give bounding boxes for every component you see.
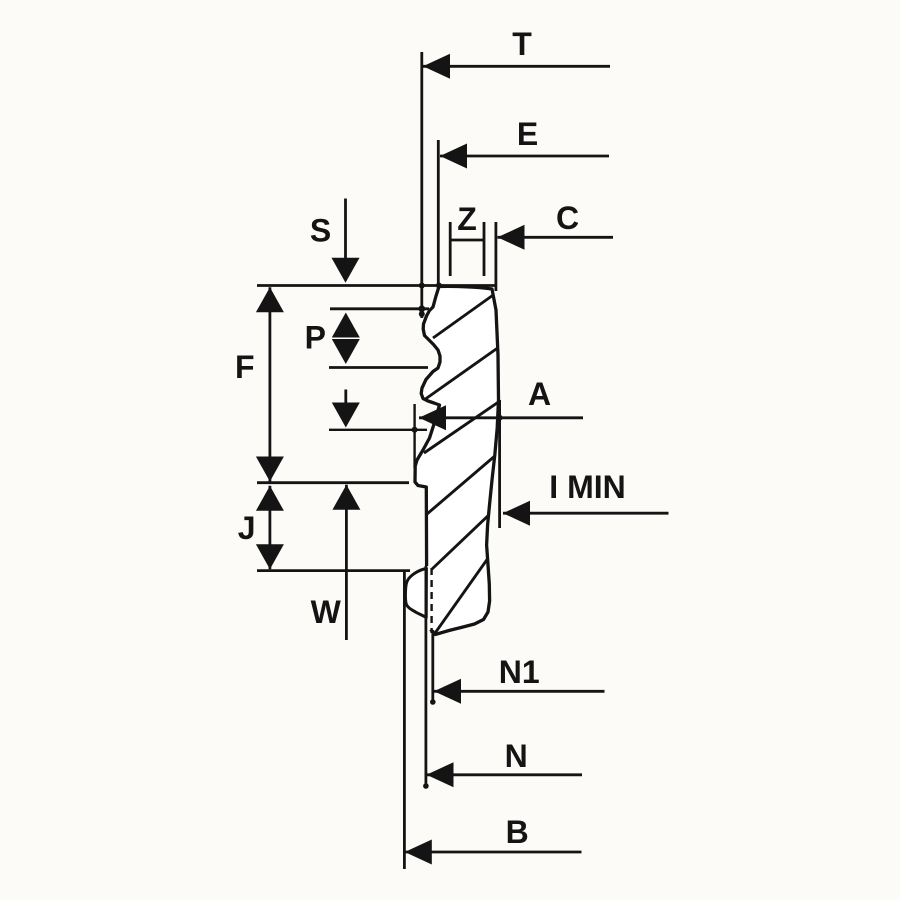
dimension A down arrow — [332, 403, 360, 428]
section visible outline — [415, 286, 499, 634]
dimension N1 arrow — [434, 679, 461, 704]
lower flange lobe — [405, 569, 426, 618]
svg-text:F: F — [235, 349, 255, 385]
dimension I MIN arrow — [503, 501, 530, 526]
dimension T line — [423, 65, 610, 68]
P bottom line — [329, 366, 428, 369]
dimension E line — [440, 155, 609, 158]
A extension tick — [413, 404, 415, 468]
dimension A down arrow stem — [344, 390, 347, 405]
wire: tube wall line (T reference) — [420, 52, 423, 318]
dimension J bottom arrow — [256, 544, 284, 569]
dimension A arrow — [419, 405, 446, 430]
dimension N line — [427, 773, 583, 776]
junction dot T/datum — [419, 283, 425, 289]
W stem — [345, 485, 348, 640]
dimension B arrow — [405, 840, 432, 865]
I MIN extension line — [498, 400, 501, 528]
Z left tick — [449, 222, 452, 276]
A lower reference line — [329, 429, 427, 431]
dimension P arrows — [332, 313, 360, 338]
dimension E arrow — [440, 144, 467, 169]
Z right tick — [483, 222, 486, 276]
dimension T arrow — [423, 54, 450, 79]
dimension I MIN line — [503, 512, 669, 515]
hatch h1 — [433, 293, 496, 338]
dimension S stem — [344, 199, 347, 261]
svg-text:T: T — [512, 26, 532, 62]
section body fill — [415, 286, 499, 634]
N1 vertical line — [431, 630, 434, 702]
junction dot A/IMIN ext — [497, 415, 503, 421]
P top line — [330, 307, 429, 310]
svg-text:N: N — [505, 738, 528, 774]
junction dot A cross — [412, 427, 418, 433]
dimension J top arrow — [256, 486, 284, 511]
hatch h5 — [431, 511, 493, 570]
C reference tick — [494, 222, 497, 291]
svg-text:N1: N1 — [499, 654, 540, 690]
svg-text:Z: Z — [457, 201, 477, 237]
N vertical line — [424, 566, 427, 786]
svg-text:W: W — [311, 594, 342, 630]
svg-text:A: A — [528, 376, 551, 412]
dimension W arrow — [332, 485, 360, 510]
hatch h6 — [433, 554, 491, 636]
svg-text:B: B — [506, 814, 529, 850]
dimension F line — [268, 287, 271, 481]
svg-text:E: E — [517, 116, 538, 152]
junction dot N1 line end — [430, 699, 436, 705]
dimension N1 line — [434, 690, 605, 693]
dimension S arrow — [332, 258, 360, 283]
hatch h2 — [424, 347, 499, 400]
junction dot T/P-line — [418, 305, 425, 312]
dimension N arrow — [427, 762, 454, 787]
dimension C line — [498, 236, 614, 239]
J top line — [257, 481, 409, 484]
hidden dashed line in lobe — [430, 568, 432, 633]
hatch h4 — [427, 455, 496, 514]
wire: E reference line — [437, 140, 440, 288]
dimension B line — [405, 851, 582, 854]
svg-text:S: S — [310, 213, 331, 249]
hatch h3 — [424, 401, 500, 453]
dimension F top arrow — [256, 287, 284, 312]
dimension F bottom arrow — [256, 457, 284, 482]
J bottom line — [257, 569, 410, 572]
hatch lines — [424, 293, 500, 636]
dimension J line — [268, 486, 271, 569]
B vertical line — [403, 571, 406, 870]
dimension Z line — [450, 239, 484, 242]
dimension C arrow — [498, 225, 525, 250]
svg-text:C: C — [556, 200, 579, 236]
junction dot section corner — [436, 283, 442, 289]
svg-text:J: J — [238, 510, 256, 546]
svg-text:P: P — [305, 320, 326, 356]
svg-text:I MIN: I MIN — [549, 469, 625, 505]
junction dot N line end — [423, 783, 429, 789]
dimension A line — [419, 416, 583, 419]
top datum line (S) — [257, 284, 496, 287]
junction dot T line end — [419, 311, 425, 317]
